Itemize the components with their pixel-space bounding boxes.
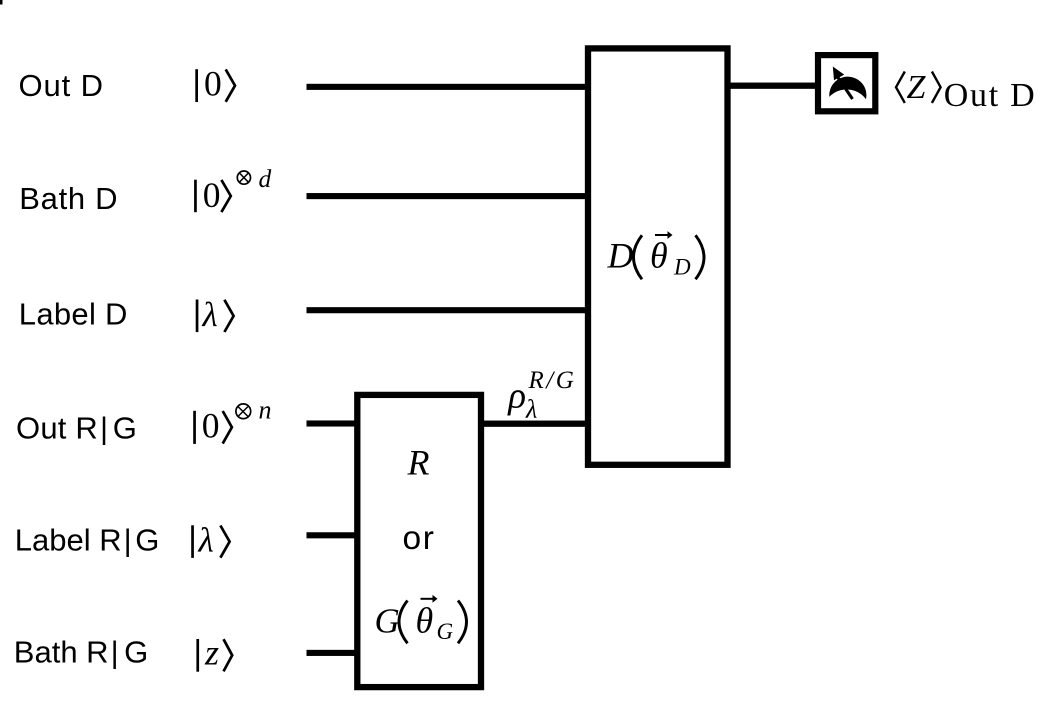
R gate label right paren [458, 601, 467, 644]
ket |lambda> row 3 bracket [224, 300, 233, 332]
ket |0>^n row 4 bracket [223, 411, 232, 444]
expectation right angle bracket [932, 72, 941, 103]
svg-text:θ: θ [416, 600, 434, 640]
ket |z> row 6 bar [196, 639, 199, 672]
svg-text:G: G [375, 601, 400, 640]
wire Out D [307, 84, 601, 90]
svg-text:D: D [607, 235, 634, 275]
D gate label vector arrow [655, 234, 668, 236]
svg-text:z: z [204, 632, 219, 672]
svg-text:Label R|G: Label R|G [15, 522, 160, 557]
svg-text:Out R|G: Out R|G [16, 411, 137, 446]
svg-text:Z: Z [907, 69, 927, 106]
svg-text:R/G: R/G [528, 367, 577, 394]
R gate label left paren [399, 601, 408, 644]
svg-text:0: 0 [202, 405, 220, 445]
svg-text:n: n [259, 395, 272, 424]
D gate label left paren [634, 235, 643, 279]
ket |lambda> row 5 bracket [220, 526, 229, 558]
svg-text:0: 0 [204, 64, 222, 104]
measurement box [818, 55, 875, 111]
svg-text:or: or [403, 520, 436, 557]
tensor circle row 2 [237, 171, 250, 184]
ket |lambda> row 3 bar [196, 300, 199, 333]
meter icon needle [838, 78, 853, 100]
svg-text:λ: λ [198, 520, 214, 559]
ket |0>^d row 2 bracket [221, 180, 230, 212]
meter icon arrowhead [833, 67, 844, 81]
svg-text:ρ: ρ [507, 376, 526, 417]
svg-text:G: G [437, 619, 454, 644]
ket |z> row 6 bracket [224, 639, 233, 671]
svg-text:Bath D: Bath D [19, 181, 118, 216]
gate box R or G [357, 395, 481, 687]
svg-text:d: d [259, 164, 272, 193]
wire rho R/G (R box to D box) [470, 421, 600, 427]
wire Label R|G [307, 532, 371, 538]
ket |0> row 1 bar [195, 69, 198, 102]
svg-text:Label D: Label D [19, 297, 128, 332]
ket |0>^d row 2 bar [194, 180, 197, 213]
svg-text:θ: θ [650, 235, 668, 275]
svg-text:λ: λ [202, 295, 218, 334]
wire Out R|G [307, 420, 371, 426]
gate box D [588, 48, 728, 464]
meter icon crescent [829, 77, 866, 100]
D gate label right paren [696, 235, 705, 279]
wire D box to meter [720, 83, 825, 89]
corner mark [0, 0, 3, 5]
expectation left angle bracket [896, 72, 905, 103]
svg-text:Out D: Out D [944, 77, 1037, 114]
ket |0>^n row 4 bar [193, 411, 196, 444]
ket |0> row 1 bracket [226, 69, 235, 101]
tensor circle row 4 [236, 404, 251, 419]
wire Label D [307, 307, 601, 313]
svg-text:0: 0 [203, 175, 221, 215]
wire Bath R|G [307, 650, 371, 656]
wire Bath D [307, 193, 601, 199]
svg-text:Out D: Out D [19, 68, 104, 103]
svg-text:λ: λ [525, 395, 537, 424]
svg-text:D: D [673, 254, 691, 279]
R gate label vector arrow [421, 598, 433, 600]
ket |lambda> row 5 bar [191, 525, 194, 558]
svg-text:R: R [407, 443, 430, 483]
svg-text:Bath R|G: Bath R|G [14, 635, 148, 670]
